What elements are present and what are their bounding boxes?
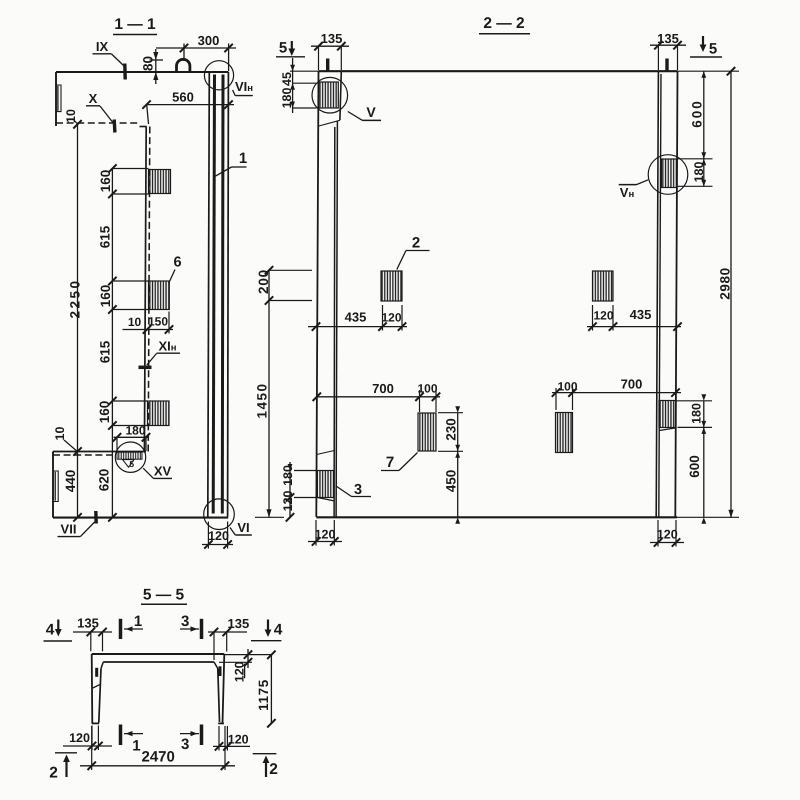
svg-text:2 — 2: 2 — 2	[483, 15, 524, 32]
svg-text:3: 3	[354, 482, 362, 498]
svg-text:5: 5	[279, 40, 287, 57]
svg-text:5: 5	[709, 41, 717, 58]
svg-text:700: 700	[621, 377, 643, 392]
svg-text:700: 700	[372, 381, 394, 396]
svg-text:1450: 1450	[255, 382, 270, 418]
svg-text:135: 135	[77, 616, 99, 631]
svg-text:600: 600	[687, 455, 702, 478]
svg-text:10: 10	[128, 315, 142, 329]
svg-text:10: 10	[64, 109, 78, 123]
svg-text:VII: VII	[61, 522, 77, 537]
svg-text:2: 2	[269, 761, 278, 778]
svg-text:120: 120	[69, 731, 90, 745]
svg-text:600: 600	[690, 99, 705, 128]
svg-text:160: 160	[97, 401, 112, 424]
svg-text:5: 5	[129, 459, 134, 469]
svg-text:620: 620	[97, 469, 112, 492]
svg-text:7: 7	[386, 454, 394, 471]
svg-text:4: 4	[46, 622, 55, 639]
svg-text:180: 180	[281, 465, 295, 486]
svg-text:200: 200	[256, 269, 271, 294]
svg-text:2: 2	[49, 765, 58, 782]
svg-text:230: 230	[444, 418, 459, 441]
svg-text:10: 10	[53, 427, 67, 441]
svg-text:1: 1	[134, 613, 142, 630]
svg-text:6: 6	[173, 255, 181, 271]
svg-text:160: 160	[98, 170, 113, 193]
svg-text:X: X	[89, 91, 98, 106]
svg-text:VI: VI	[237, 520, 249, 535]
svg-text:615: 615	[98, 340, 113, 363]
svg-text:435: 435	[345, 310, 367, 325]
svg-text:100: 100	[417, 382, 437, 396]
svg-text:3: 3	[181, 613, 189, 630]
svg-text:180: 180	[125, 424, 145, 438]
svg-text:2250: 2250	[68, 278, 83, 318]
svg-text:1: 1	[132, 738, 140, 755]
svg-text:560: 560	[172, 90, 194, 105]
svg-text:XV: XV	[154, 464, 172, 479]
svg-text:V: V	[366, 104, 376, 120]
svg-text:2980: 2980	[718, 267, 733, 299]
svg-text:IX: IX	[96, 39, 109, 54]
svg-text:450: 450	[444, 470, 459, 493]
svg-text:615: 615	[98, 225, 113, 248]
svg-text:2470: 2470	[142, 749, 175, 766]
svg-text:1175: 1175	[256, 679, 271, 711]
svg-text:1 — 1: 1 — 1	[114, 16, 156, 33]
svg-text:120: 120	[381, 311, 401, 325]
svg-text:2: 2	[412, 235, 420, 252]
svg-text:180: 180	[690, 403, 704, 424]
svg-text:45: 45	[280, 72, 294, 86]
svg-text:80: 80	[141, 56, 156, 71]
svg-text:440: 440	[63, 470, 78, 493]
svg-text:135: 135	[321, 31, 343, 46]
svg-text:5 — 5: 5 — 5	[143, 587, 185, 604]
svg-text:3: 3	[181, 736, 189, 753]
svg-text:160: 160	[98, 285, 113, 308]
svg-text:1: 1	[239, 150, 247, 167]
svg-text:4: 4	[274, 622, 283, 639]
svg-text:300: 300	[198, 33, 220, 48]
svg-text:435: 435	[630, 307, 652, 322]
svg-text:120: 120	[593, 309, 613, 323]
